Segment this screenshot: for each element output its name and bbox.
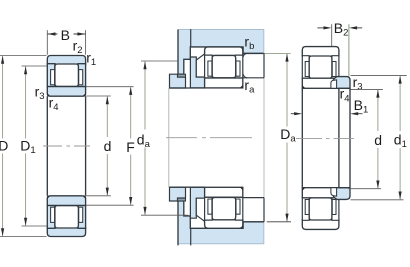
dimension F: bottom arrowhead [129,197,132,205]
dimension da: top arrowhead [143,61,146,69]
left figure: cage slot bottom-left [51,207,55,222]
svg-text:d: d [104,138,112,154]
middle figure: bearing outer ring bottom band [205,220,243,229]
left figure: cage slot bottom-right [79,207,83,222]
left figure: inner ring top band [47,87,85,97]
middle figure: abutment washer top (white, chamfered) [196,54,204,77]
middle figure: ra surface line top [243,77,264,79]
middle figure: cage slots top [208,61,240,76]
dimension d1: extension lines [351,75,407,199]
dimension d1: bottom arrowhead [399,192,402,200]
dimension D: dimension line [2,56,4,236]
middle figure: housing end face light middle [263,78,265,198]
left figure: outer ring bottom right rib [78,205,86,228]
middle figure: shaft surface line bottom [169,186,205,188]
middle figure: housing end face vertical [263,53,265,221]
dimension D: extension lines [0,56,47,237]
middle figure: shaft shoulder ring top (blue) [190,57,204,88]
middle figure: rb line bottom with Da ext light [243,221,264,223]
middle figure: housing bottom break edges (faint) [178,222,264,244]
right figure: cage slots top [305,62,336,77]
dimension F: dimension line [130,87,132,205]
dimension B1: right line and arrowhead (pointing left) [357,113,363,115]
svg-text:F: F [126,139,135,155]
middle figure: roller bottom [212,197,236,219]
dimension F: top arrowhead [129,87,132,95]
dimension B2: left line and arrowhead (pointing right) [317,27,325,29]
right figure: outer ring top band [302,47,339,57]
middle figure: housing top dark outline [178,30,264,75]
dimension d right: dimension line [377,90,379,188]
middle figure: housing bottom block with cover lip [178,201,264,244]
middle figure: shaft step top (blue) [170,74,186,88]
fillet arc rb [243,53,247,57]
left figure: outer ring right rib [78,64,86,87]
right figure: r4 groove notch bottom (white) [331,188,337,196]
middle figure: seal strip top (gray) [178,74,186,77]
middle figure: ra surface line bottom [243,197,264,199]
left figure: inner ring bottom band [47,196,85,206]
dimension d right: top arrowhead [376,90,379,98]
middle figure: shaft end light edge [168,88,170,187]
dimension B: left arrowhead [48,32,56,35]
middle figure: housing joint line top [190,29,192,47]
dimension d1: top arrowhead [399,76,402,84]
right figure: r4 groove notch top (white) [331,80,337,88]
right figure: left face line [301,88,303,187]
left figure: bore chamfer wedge bottom-left [47,196,50,199]
middle figure: housing bottom dark outline [178,201,264,245]
left figure: axis centerline dashes [43,145,90,147]
left figure: outer ring top band (NU bearing section, top half) [47,56,85,65]
middle figure: shaft shoulder ring bottom (blue) [190,187,204,218]
dimension da: dimension line [144,62,146,215]
left figure: left face line (bore silhouette) [46,96,48,196]
dimension D1: extension lines [22,66,47,226]
middle figure: seal strip bottom (gray) [178,198,186,201]
dimension Da: bottom arrowhead [285,214,288,222]
right figure: inner ring bottom band [302,188,339,198]
right figure: bore lines under HJ [339,88,350,187]
middle figure: axis centerline [166,137,252,139]
middle figure: abutment washer bottom (white, chamfered) [196,198,204,221]
dimension B: dimension line [48,33,86,35]
dimension Da: top arrowhead [285,54,288,62]
svg-text:B: B [61,27,70,43]
right figure: outer ring ribs top [302,56,339,78]
middle figure: cage slots bottom [208,199,240,214]
left figure: cage slot right [79,70,83,85]
dimension da: extension lines [141,61,188,215]
left figure: bore chamfer wedge bottom-right [82,196,85,199]
dimension d right: extension lines [349,89,383,188]
right figure: axis centerline dashes [296,137,354,139]
right figure: roller bottom [309,198,332,220]
dimension D1: dimension line [25,67,27,226]
middle figure: housing shoulder bore line right (rb side) [243,52,263,54]
dimension d: dimension line [106,97,108,196]
dimension D1: top arrowhead [24,66,27,74]
svg-text:D: D [0,138,8,154]
middle figure: shaft surface line top [169,87,205,89]
dimension B2: extension lines [331,24,333,46]
dimension F: extension lines [86,87,133,206]
right figure: outer ring ribs bottom [302,198,339,221]
dimension D: top arrowhead [1,56,4,64]
left figure: bore chamfer wedge top-right [82,93,85,96]
right figure: outer ring bottom band [302,220,339,230]
left figure: bore chamfer wedge top-left [47,93,50,96]
middle figure: inner ring bottom band [205,187,243,197]
right figure: HJ angle ring bottom (blue) [333,188,350,200]
middle figure: bearing outer ring top band [205,47,243,56]
dimension Da: dimension line [286,54,288,221]
dimension d: top arrowhead [106,96,109,104]
right figure: bore chamfer wedge top-left [302,85,305,88]
left figure: outer ring left rib [47,64,55,87]
right figure: HJ angle ring top (blue) [333,77,350,89]
middle figure: roller top [212,55,236,77]
right figure: cage slots bottom [305,200,336,215]
left figure: right face line (bore silhouette) [85,96,87,196]
right figure: inner ring top band [302,78,339,88]
left figure: roller top [55,64,79,86]
middle figure: housing top break edges (faint) [178,30,264,54]
right figure: HJ right face line [349,88,351,187]
dimension da: bottom arrowhead [143,207,146,215]
middle figure: housing top block with cover lip [178,30,264,75]
dimension D: bottom arrowhead [1,228,4,236]
right figure: inner right face line [338,88,340,187]
dimension d: extension lines [86,96,111,196]
middle figure: Da extension light right top [264,52,291,54]
middle figure: bore chamfer wedge bottom-right [240,187,243,190]
middle figure: bore chamfer wedge top-right [240,85,243,88]
dimension d1: dimension line [399,76,401,199]
left figure: cage slot left [51,70,55,85]
dimension B: extension lines [47,30,85,55]
middle figure: shaft step bottom (blue) [170,187,186,201]
dimension B: right arrowhead [77,32,85,35]
left figure: roller bottom [55,206,79,228]
right figure: bore chamfer wedge bottom-left [302,188,305,191]
right figure: roller top [309,56,332,78]
dimension d right: bottom arrowhead [376,181,379,189]
left figure: outer ring bottom left rib [47,205,55,228]
middle figure: inner ring top band [205,78,243,88]
left figure: outer ring bottom band [47,228,85,237]
middle figure: outer ring ribs top [205,55,243,78]
svg-text:d: d [374,132,382,148]
middle figure: housing joint line bottom [190,228,192,245]
dimension D1: bottom arrowhead [24,218,27,226]
dimension B2: right line and arrowhead (pointing left) [356,27,363,29]
middle figure: outer ring ribs bottom [205,197,243,220]
dimension B1: left line and arrowhead (pointing right) [291,113,296,115]
dimension d: bottom arrowhead [106,188,109,196]
fillet arc ra [243,74,247,78]
